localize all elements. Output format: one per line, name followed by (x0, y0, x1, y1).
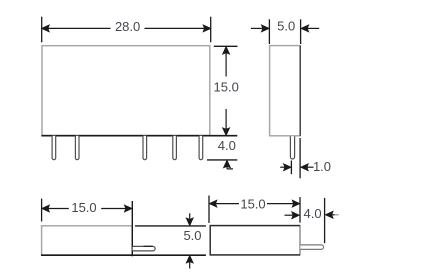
dim 15.0 line (223, 47, 229, 135)
bottom-left pin (133, 246, 156, 251)
front view base line (41, 135, 237, 137)
dim 15.0 br line (210, 201, 300, 207)
dim 15.0 bl line (42, 205, 131, 211)
dim 4.0 arrow below (224, 161, 233, 169)
bottom-left base line (41, 254, 206, 256)
pin 3 (143, 136, 147, 160)
dim 1.0 arrows (280, 164, 313, 170)
side view pin (290, 136, 294, 159)
dim 1.0 line right (299, 138, 301, 178)
svg-text:15.0: 15.0 (71, 200, 96, 215)
dim 15.0 bl extension left (41, 199, 43, 222)
side view right edge dark (299, 46, 301, 136)
pin 2 (75, 136, 79, 160)
svg-text:1.0: 1.0 (313, 159, 331, 174)
dim 28.0 line (42, 25, 210, 31)
dim 5.0 bl arrows (187, 213, 193, 268)
dim 28.0 extension left (41, 17, 43, 43)
svg-text:5.0: 5.0 (183, 228, 201, 243)
dim 5.0 outside arrows (251, 25, 319, 31)
dim 28.0 extension right (210, 17, 212, 43)
bottom-right view body (210, 226, 300, 255)
svg-text:15.0: 15.0 (214, 80, 239, 95)
pin 1 (52, 136, 56, 160)
svg-text:4.0: 4.0 (218, 138, 236, 153)
svg-text:5.0: 5.0 (277, 19, 295, 34)
pin 4 (173, 136, 177, 160)
bottom-left view body (42, 226, 133, 255)
svg-text:4.0: 4.0 (304, 206, 322, 221)
dim 5.0 extension right (300, 19, 302, 44)
dim 5.0 bl top line (135, 225, 206, 227)
bottom-left pin dark top edge (144, 245, 153, 247)
svg-text:28.0: 28.0 (115, 19, 140, 34)
pin 5 (199, 136, 203, 160)
dim 4.0 bottom line (207, 159, 237, 161)
dim 4.0 br right line (324, 198, 326, 243)
side view body (270, 46, 301, 136)
bottom-right pin (300, 245, 323, 250)
dim 5.0 extension left (268, 19, 270, 44)
dim 15.0 br extension left (208, 196, 210, 223)
dim 4.0 br arrows (285, 212, 339, 219)
dim 1.0 line left (290, 161, 292, 175)
svg-text:15.0: 15.0 (240, 196, 265, 211)
dim 15.0 br extension right (299, 197, 301, 223)
dim 15.0 top extension (214, 45, 238, 47)
bottom-left right extension line (131, 201, 133, 256)
bottom-right body dark edges (210, 226, 300, 255)
front view body (42, 46, 210, 136)
